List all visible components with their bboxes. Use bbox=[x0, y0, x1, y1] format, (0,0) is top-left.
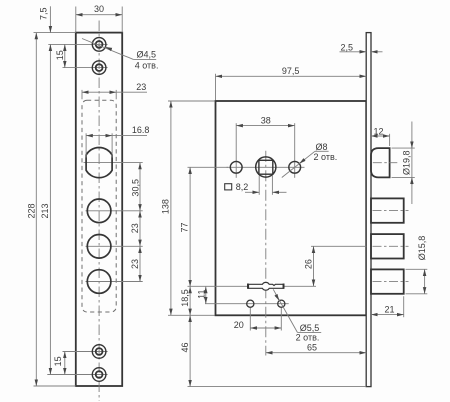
dim 23 mid line bbox=[139, 211, 141, 247]
leader O8 line bbox=[282, 151, 315, 177]
dashed cutout rectangle bbox=[82, 100, 116, 312]
dim 12 extension line bbox=[389, 134, 391, 146]
latch bolt bbox=[371, 148, 390, 177]
dim 65 line bbox=[266, 352, 366, 354]
strip bottom extension line bbox=[188, 386, 367, 388]
dim O15,8 line bbox=[424, 269, 426, 294]
keyway slot outline bbox=[249, 282, 284, 290]
dim O19,8 top arrow bbox=[411, 141, 413, 149]
svg-text:23: 23 bbox=[130, 259, 140, 269]
screw hole F2 centerline bbox=[63, 67, 108, 69]
cylinder hole with flats bbox=[86, 148, 112, 178]
dim 77 line bbox=[189, 167, 191, 286]
screw hole F7 centerline bbox=[47, 374, 107, 376]
hole A vertical centerline / dim 38 extension bbox=[235, 123, 237, 178]
svg-text:46: 46 bbox=[180, 342, 190, 352]
dim 21 line bbox=[371, 314, 404, 316]
screw hole F7 bbox=[92, 368, 106, 382]
dim 23 top line tail bbox=[116, 91, 147, 93]
dim 97,5 extension line bbox=[215, 74, 217, 100]
dim 12 line bbox=[371, 135, 390, 137]
svg-text:12: 12 bbox=[373, 126, 383, 136]
dim 138 extension lines bbox=[168, 101, 215, 315]
mounting holes centerline bbox=[205, 303, 289, 305]
dim 7,5 upper arrow bbox=[49, 6, 51, 32]
hole B vertical centerline / dim 38 extension bbox=[294, 123, 296, 178]
svg-text:4 отв.: 4 отв. bbox=[135, 61, 159, 71]
screw hole F2 bbox=[92, 61, 106, 75]
keyway centerline left extension bbox=[188, 285, 248, 287]
leader O5,5 line bbox=[273, 289, 297, 332]
svg-text:138: 138 bbox=[160, 199, 170, 214]
svg-text:30: 30 bbox=[94, 4, 104, 14]
hub hole B bbox=[289, 161, 301, 173]
dim 16.8 line tail bbox=[112, 135, 147, 137]
cylinder hole with flats centerline bbox=[84, 162, 143, 164]
svg-text:65: 65 bbox=[307, 343, 317, 353]
svg-text:18,5: 18,5 bbox=[180, 289, 190, 307]
plate top extension line bbox=[34, 32, 76, 34]
svg-text:15: 15 bbox=[55, 50, 65, 60]
faceplate outline bbox=[76, 33, 122, 386]
keyway centerline right extension bbox=[284, 285, 316, 287]
svg-text:Ø8: Ø8 bbox=[315, 142, 327, 152]
dim 26 line bbox=[313, 246, 315, 286]
svg-text:15: 15 bbox=[53, 356, 63, 366]
hub holes horizontal centerline bbox=[227, 166, 305, 168]
svg-text:213: 213 bbox=[40, 203, 50, 218]
bolt hole F3 bbox=[87, 199, 111, 223]
leader O8 underline bbox=[315, 150, 329, 152]
leader O4,5 line bbox=[82, 39, 133, 60]
mounting hole left bbox=[247, 300, 254, 307]
deadbolt 3 centerline bbox=[373, 281, 409, 283]
dim 38 line bbox=[236, 125, 295, 127]
dim 8,2 extension lines bbox=[259, 176, 272, 195]
svg-text:20: 20 bbox=[234, 320, 244, 330]
svg-text:7,5: 7,5 bbox=[39, 7, 49, 20]
screw hole F1 bbox=[92, 38, 106, 52]
svg-text:97,5: 97,5 bbox=[282, 66, 300, 76]
square symbol bbox=[225, 184, 232, 190]
dim 16.8 line bbox=[86, 135, 112, 137]
screw hole F1 centerline bbox=[48, 43, 107, 45]
faceplate strip edge view bbox=[366, 33, 371, 387]
FRONT VIEW bbox=[76, 33, 122, 386]
dim 46 line bbox=[189, 315, 191, 386]
dim O19,8 extension lines bbox=[392, 148, 415, 177]
main vertical centerline bbox=[265, 151, 267, 356]
spindle square 8,2 bbox=[259, 160, 273, 174]
svg-text:16.8: 16.8 bbox=[132, 125, 150, 135]
svg-text:26: 26 bbox=[304, 259, 314, 269]
dim 8,2 right arrow bbox=[272, 191, 286, 193]
dim O15,8 extension lines bbox=[406, 269, 428, 294]
svg-text:Ø4,5: Ø4,5 bbox=[137, 49, 157, 59]
svg-text:30,5: 30,5 bbox=[130, 179, 140, 197]
dim 30 line bbox=[76, 14, 122, 16]
svg-text:23: 23 bbox=[136, 82, 146, 92]
dim 21 extension line bbox=[403, 296, 405, 317]
dim 16.8 extension lines bbox=[86, 133, 112, 157]
lock body outline bbox=[216, 101, 367, 315]
mounting hole right bbox=[278, 300, 285, 307]
dim 77 extension line bbox=[188, 166, 229, 168]
plate bottom extension line bbox=[34, 385, 76, 387]
spindle hole circle bbox=[256, 157, 276, 177]
bolt hole F5 centerline bbox=[86, 281, 143, 283]
svg-text:38: 38 bbox=[261, 115, 271, 125]
bolt hole F5 bbox=[87, 270, 111, 294]
faceplate vertical centerline bbox=[98, 21, 100, 402]
deadbolt 1 bbox=[371, 198, 404, 222]
keyway end cap right bbox=[283, 284, 285, 289]
dim 23 top extension lines bbox=[82, 90, 116, 99]
svg-text:2 отв.: 2 отв. bbox=[314, 152, 338, 162]
dim 23 top line bbox=[82, 91, 116, 93]
svg-text:228: 228 bbox=[27, 203, 37, 218]
svg-text:2,5: 2,5 bbox=[341, 42, 354, 52]
dim 213 line (also lower 7,5 arrow) bbox=[49, 44, 51, 374]
deadbolt 1 centerline bbox=[373, 210, 409, 212]
deadbolt 2 centerline extension into body bbox=[311, 245, 366, 247]
leader O4,5 underline bbox=[133, 58, 156, 60]
svg-text:77: 77 bbox=[180, 222, 190, 232]
dim 2,5 right arrow bbox=[371, 51, 383, 53]
dim O19,8 line bbox=[411, 122, 413, 205]
bolt hole F3 centerline bbox=[86, 210, 143, 212]
svg-text:11: 11 bbox=[196, 290, 206, 299]
dim 97,5 line bbox=[216, 75, 367, 77]
deadbolt 2 bbox=[371, 234, 404, 258]
dim 2,5 left arrow bbox=[340, 51, 367, 53]
bolt hole F4 bbox=[87, 235, 111, 259]
latch centerline bbox=[373, 162, 398, 164]
keyway end cap left bbox=[247, 284, 249, 289]
screw hole F6 centerline bbox=[63, 351, 108, 353]
leader O4,5 arrow bbox=[105, 47, 111, 50]
dim 11 line bbox=[205, 287, 207, 304]
svg-text:21: 21 bbox=[384, 304, 394, 314]
svg-text:23: 23 bbox=[130, 223, 140, 233]
dim O19,8 bottom arrow bbox=[411, 177, 413, 185]
dim 30,5 line bbox=[139, 163, 141, 211]
dim 30 extension lines bbox=[76, 7, 122, 33]
hub hole A bbox=[230, 161, 242, 173]
leader O8 arrow bbox=[299, 159, 305, 164]
svg-text:Ø5,5: Ø5,5 bbox=[300, 323, 320, 333]
dim 23 low line bbox=[139, 246, 141, 281]
leader O5,5 arrow bbox=[276, 294, 280, 300]
dim 138 line bbox=[170, 101, 172, 315]
svg-text:8,2: 8,2 bbox=[236, 182, 249, 192]
svg-text:Ø19,8: Ø19,8 bbox=[401, 150, 411, 175]
svg-text:Ø15,8: Ø15,8 bbox=[417, 236, 427, 261]
screw hole F6 bbox=[92, 345, 106, 359]
bolt hole F4 centerline bbox=[86, 245, 143, 247]
dim 20 extension lines bbox=[250, 308, 281, 331]
dim 8,2 left arrow bbox=[245, 191, 259, 193]
dim 228 line bbox=[35, 33, 37, 386]
leader O5,5 underline bbox=[297, 331, 321, 333]
deadbolt 2 centerline bbox=[373, 245, 409, 247]
deadbolt 3 bbox=[371, 269, 404, 293]
dim 15 bottom line bbox=[64, 352, 66, 375]
dim 18,5 line bbox=[189, 287, 191, 316]
dim 15 top line bbox=[64, 44, 66, 67]
svg-text:2 отв.: 2 отв. bbox=[296, 332, 320, 342]
dim 20 line bbox=[250, 327, 281, 329]
